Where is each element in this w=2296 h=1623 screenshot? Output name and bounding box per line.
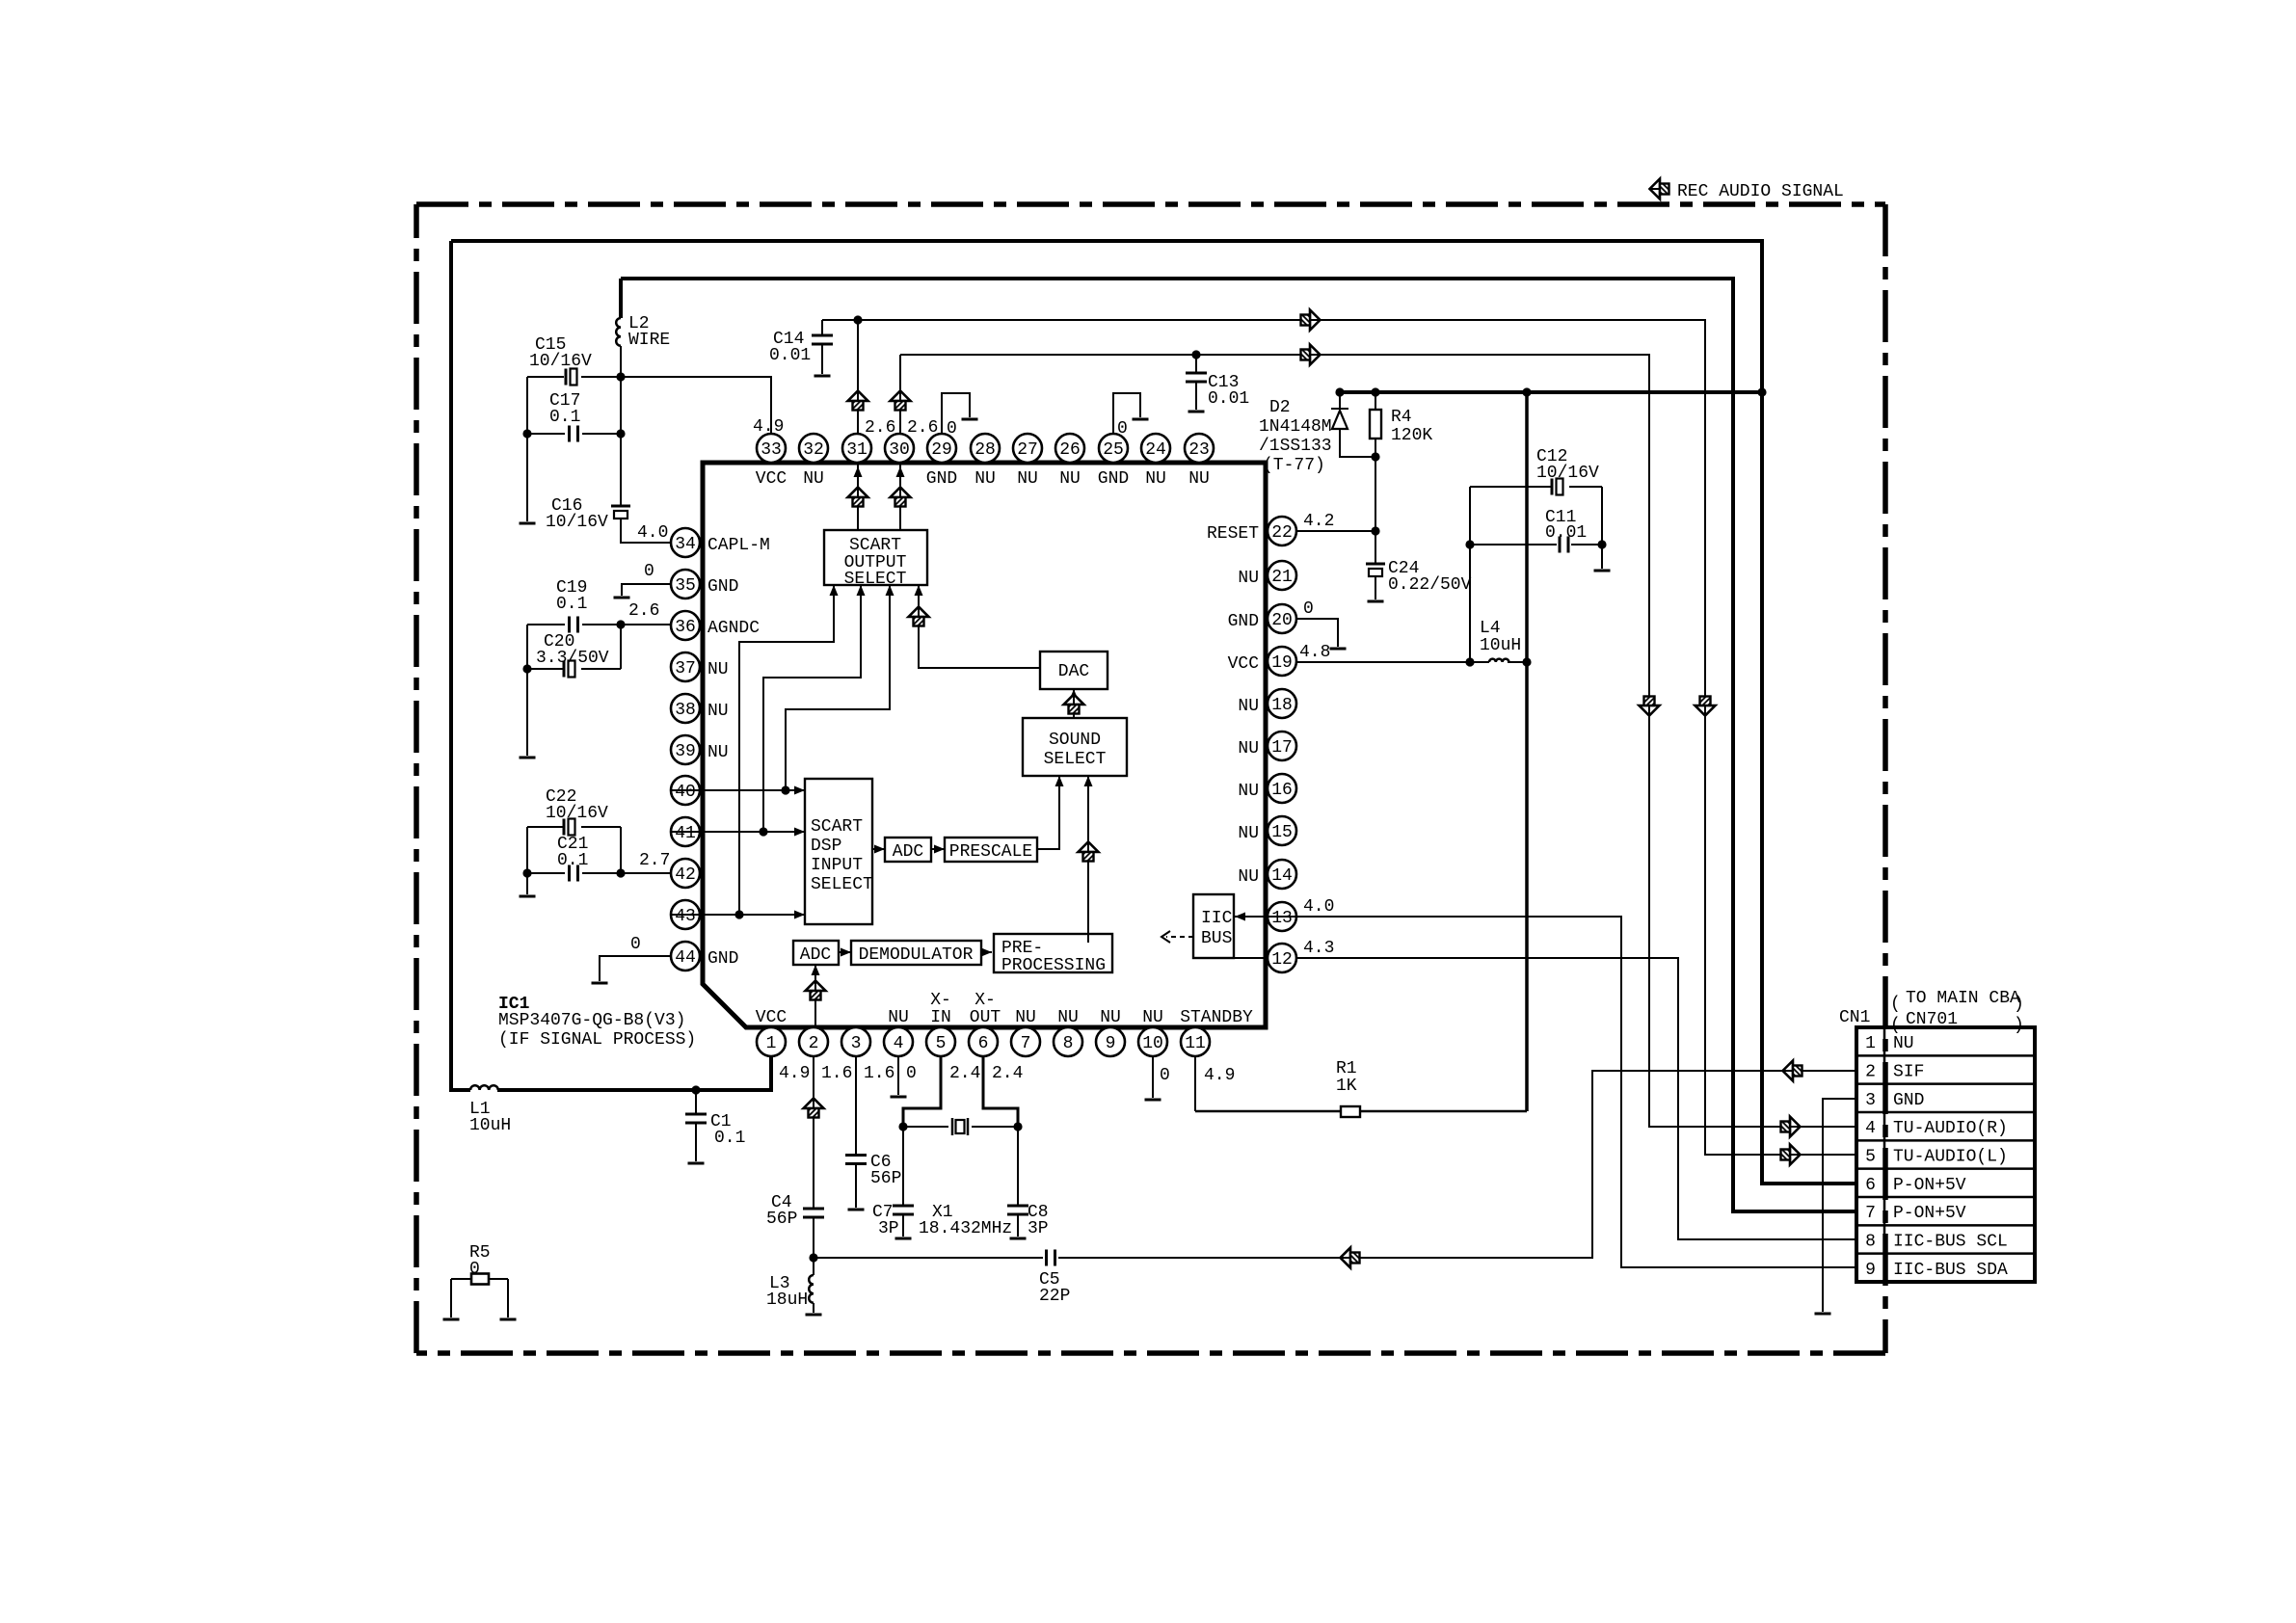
pin 38 (671, 694, 700, 723)
svg-text:10: 10 (1142, 1034, 1163, 1053)
svg-text:P-ON+5V: P-ON+5V (1893, 1204, 1966, 1223)
svg-text:NU: NU (1238, 782, 1259, 801)
svg-text:1N4148M: 1N4148M (1259, 417, 1332, 437)
junction L4 right (1522, 657, 1531, 666)
pin 44 (671, 942, 700, 971)
svg-text:27: 27 (1017, 440, 1038, 460)
svg-text:17: 17 (1271, 738, 1293, 758)
svg-text:ADC: ADC (800, 945, 832, 965)
pin 2 (799, 1027, 828, 1056)
svg-text:NU: NU (1893, 1034, 1914, 1053)
signal arrow pin30 inside (891, 488, 911, 507)
svg-text:): ) (2014, 1016, 2024, 1035)
svg-text:10/16V: 10/16V (546, 804, 608, 823)
svg-text:PROCESSING: PROCESSING (1001, 956, 1106, 975)
svg-text:7: 7 (1865, 1204, 1876, 1223)
pin 6 (969, 1027, 998, 1056)
svg-text:VCC: VCC (1228, 654, 1260, 674)
wire C20 right rail (620, 625, 622, 669)
block SOUND SELECT (1023, 718, 1127, 776)
capacitor C1 0.1 (695, 1090, 697, 1114)
pin 3 (841, 1027, 870, 1056)
svg-text:1: 1 (766, 1034, 777, 1053)
svg-text:DAC: DAC (1058, 662, 1090, 681)
wire AGNDC pin36 net (2.6) (527, 624, 671, 625)
svg-text:NU: NU (1238, 739, 1259, 758)
svg-text:TO MAIN CBA: TO MAIN CBA (1906, 989, 2020, 1008)
capacitor C14 0.01 (821, 320, 823, 335)
svg-text:0: 0 (1160, 1066, 1170, 1085)
pin 36 (671, 611, 700, 640)
pin 4 (884, 1027, 913, 1056)
svg-text:PRESCALE: PRESCALE (949, 842, 1032, 862)
svg-text:2.4: 2.4 (992, 1064, 1023, 1083)
wire IIC BUS to pin13 (1234, 916, 1296, 918)
svg-text:18: 18 (1271, 696, 1293, 715)
svg-text:NU: NU (974, 469, 996, 489)
pin 23 (1185, 434, 1214, 463)
resistor R1 1K (1341, 1106, 1360, 1117)
wire pin2 to ADC2 (814, 965, 816, 1027)
connector CN1 table (1856, 1027, 2035, 1282)
wire pin35 GND stub (622, 584, 671, 596)
svg-text:NU: NU (707, 743, 729, 762)
svg-text:0.1: 0.1 (549, 408, 580, 427)
junction SIF/C5 line (809, 1253, 817, 1262)
wire pin3 to C6 (855, 1056, 857, 1155)
wire pin31 audio line to CN1 pin 5 TU-AUDIO(L) (822, 320, 1856, 1155)
svg-text:DEMODULATOR: DEMODULATOR (859, 945, 974, 965)
svg-text:NU: NU (1017, 469, 1038, 489)
signal arrow into CN1 pin2 SIF (1783, 1061, 1802, 1081)
pin 8 (1054, 1027, 1082, 1056)
svg-text:SELECT: SELECT (811, 875, 873, 894)
wire ADC to PRESCALE (931, 848, 945, 850)
wire pin40 branch to SCART OUTPUT SELECT (786, 585, 890, 790)
block ADC (demodulator path) (793, 941, 839, 965)
pin 19 (1268, 647, 1296, 676)
signal arrow on SIF line (1341, 1248, 1360, 1268)
svg-text:3.3/50V: 3.3/50V (536, 649, 609, 668)
svg-text:2.6: 2.6 (907, 418, 938, 438)
svg-text:GND: GND (707, 949, 738, 969)
resistor R5 0 (451, 1279, 508, 1317)
svg-text:VCC: VCC (756, 1008, 788, 1027)
svg-text:0.1: 0.1 (556, 595, 587, 614)
wire IIC BUS to pin12 (1234, 957, 1268, 959)
diode D2 1N4148M/1SS133 (1331, 392, 1375, 457)
capacitor C13 0.01 (1195, 355, 1197, 373)
junction X1 right (1013, 1122, 1022, 1131)
wire C22 right rail (620, 827, 622, 873)
wire C12/C11 right rail to ground (1601, 487, 1603, 569)
capacitor C24 0.22/50V (1366, 563, 1385, 566)
wire pin30 audio line to CN1 pin 4 TU-AUDIO(R) (900, 355, 1856, 1127)
svg-text:8: 8 (1865, 1233, 1876, 1252)
svg-text:18uH: 18uH (766, 1290, 808, 1310)
svg-text:NU: NU (1238, 569, 1259, 588)
junction rail-D2 (1335, 387, 1344, 396)
wire pin12 to CN1 pin 8 IIC-BUS SCL (4.3) (1296, 958, 1856, 1239)
svg-text:44: 44 (675, 948, 696, 968)
wire pin11 STANDBY to R1 (1194, 1056, 1196, 1111)
pin 30 (885, 434, 914, 463)
pin 26 (1055, 434, 1084, 463)
junction C19/C20 right (616, 620, 625, 628)
signal arrow on DAC wire (909, 607, 929, 626)
inductor L1 10uH (470, 1085, 498, 1090)
pin 5 (926, 1027, 955, 1056)
capacitor C15 10/16V (565, 369, 568, 386)
svg-text:NU: NU (803, 469, 824, 489)
svg-text:0.01: 0.01 (769, 346, 811, 365)
svg-text:OUT: OUT (970, 1008, 1001, 1027)
pin 16 (1268, 774, 1296, 803)
svg-text:AGNDC: AGNDC (707, 619, 760, 638)
svg-text:3: 3 (1865, 1091, 1876, 1110)
svg-text:16: 16 (1271, 781, 1293, 800)
svg-text:10/16V: 10/16V (529, 352, 592, 371)
pin 17 (1268, 732, 1296, 760)
svg-text:VCC: VCC (756, 469, 788, 489)
svg-text:41: 41 (675, 824, 696, 843)
svg-text:P-ON+5V: P-ON+5V (1893, 1176, 1966, 1195)
wire DEMODULATOR to PRE-PROCESSING (981, 951, 992, 953)
wire pin4 stub (897, 1056, 899, 1095)
block DEMODULATOR (851, 941, 981, 965)
wire C12/C11 left rail (1469, 487, 1471, 662)
svg-text:IIC-BUS SCL: IIC-BUS SCL (1893, 1233, 2008, 1252)
svg-text:0: 0 (469, 1260, 480, 1279)
svg-text:32: 32 (803, 440, 824, 460)
junction C17 right (616, 429, 625, 438)
block PRE-PROCESSING (994, 934, 1112, 972)
pin 20 (1268, 604, 1296, 633)
svg-text:SCART: SCART (811, 817, 863, 837)
pin 28 (971, 434, 1000, 463)
wire pin2 riser to C4 (813, 1056, 814, 1209)
svg-text:1K: 1K (1336, 1077, 1357, 1096)
wire C19/C20 ground rail (526, 625, 528, 756)
svg-text:10uH: 10uH (1480, 636, 1521, 655)
svg-text:SELECT: SELECT (844, 570, 907, 589)
svg-text:SELECT: SELECT (1044, 750, 1107, 769)
svg-text:GND: GND (707, 577, 738, 597)
svg-text:NU: NU (707, 660, 729, 679)
pin 42 (671, 859, 700, 888)
signal arrow down TU-AUDIO(R) (1640, 697, 1660, 716)
svg-text:56P: 56P (870, 1169, 901, 1188)
svg-text:4: 4 (894, 1034, 904, 1053)
svg-text:10/16V: 10/16V (1536, 464, 1599, 483)
capacitor C21 0.1 (570, 865, 578, 882)
wire ADC2 to DEMODULATOR (839, 951, 851, 953)
svg-text:GND: GND (1228, 612, 1259, 631)
svg-text:25: 25 (1103, 440, 1124, 460)
wire pin41 branch to SCART OUTPUT SELECT (763, 585, 861, 832)
svg-text:CAPL-M: CAPL-M (707, 536, 770, 555)
svg-text:37: 37 (675, 659, 696, 678)
svg-text:20: 20 (1271, 611, 1293, 630)
svg-text:0.1: 0.1 (714, 1129, 745, 1148)
svg-text:2.6: 2.6 (865, 418, 895, 438)
REC AUDIO SIGNAL flow arrow (1650, 179, 1669, 200)
junction C20 left (522, 664, 531, 673)
resistor R4 120K (1375, 392, 1376, 563)
wire pin29 GND stub (942, 393, 970, 434)
junction L2/C15 (616, 372, 625, 381)
pin 39 (671, 735, 700, 764)
svg-text:21: 21 (1271, 568, 1293, 587)
wire pin22 RESET (4.2) (1296, 530, 1375, 532)
pin 25 (1099, 434, 1128, 463)
pin 40 (671, 776, 700, 805)
junction reset wire (1371, 526, 1379, 535)
signal arrow on TU-AUDIO(L) line (1301, 310, 1321, 331)
svg-text:31: 31 (846, 440, 868, 460)
svg-text:GND: GND (1893, 1091, 1924, 1110)
wire second P-ON route to CN1 pin 7 (from L2) (621, 279, 1856, 1211)
svg-text:IN: IN (930, 1008, 951, 1027)
block SCART OUTPUT SELECT (824, 530, 927, 585)
wire C22/C21 ground rail (526, 827, 528, 894)
pin 34 (671, 528, 700, 557)
svg-text:): ) (2014, 995, 2024, 1014)
svg-text:NU: NU (1100, 1008, 1121, 1027)
svg-text:IIC-BUS SDA: IIC-BUS SDA (1893, 1261, 2008, 1280)
svg-text:NU: NU (707, 702, 729, 721)
wire pin43 to SCART DSP INPUT SELECT (671, 914, 805, 916)
capacitor C5 22P (1047, 1250, 1055, 1266)
svg-text:28: 28 (974, 440, 996, 460)
pin 32 (799, 434, 828, 463)
capacitor C16 10/16V (611, 505, 630, 508)
wire pin19 VCC to L4 (1296, 661, 1527, 663)
capacitor C12 10/16V (1470, 486, 1602, 488)
svg-text:3P: 3P (878, 1219, 899, 1238)
svg-text:9: 9 (1865, 1261, 1876, 1280)
signal arrow on PRE-PROCESSING wire (1079, 842, 1099, 862)
svg-text:RESET: RESET (1207, 524, 1259, 544)
block PRESCALE (945, 838, 1037, 862)
junction C17 left (522, 429, 531, 438)
pin 43 (671, 900, 700, 929)
svg-text:NU: NU (1238, 824, 1259, 843)
wire pin42 net (2.7) (527, 872, 671, 874)
wire P-ON+5V inner border (top, right drop to CN1 pin 6) (451, 241, 1856, 1184)
junction C21 right (616, 868, 625, 877)
signal arrow down TU-AUDIO(L) (1695, 697, 1716, 716)
svg-text:(IF SIGNAL PROCESS): (IF SIGNAL PROCESS) (498, 1030, 696, 1050)
svg-text:19: 19 (1271, 653, 1293, 673)
pin 29 (927, 434, 956, 463)
svg-text:26: 26 (1059, 440, 1081, 460)
signal arrow into CN1 pin4 (1781, 1117, 1801, 1137)
capacitor C11 0.01 (1470, 544, 1602, 545)
svg-text:15: 15 (1271, 823, 1293, 842)
svg-text:36: 36 (675, 618, 696, 637)
pin 10 (1138, 1027, 1167, 1056)
junction rail-border (1757, 387, 1766, 396)
svg-text:GND: GND (1098, 469, 1129, 489)
svg-text:1: 1 (1865, 1034, 1876, 1053)
pin 31 (842, 434, 871, 463)
wire pin13 to CN1 pin 9 IIC-BUS SDA (4.0) (1296, 917, 1856, 1267)
pin 12 (1268, 944, 1296, 972)
signal arrow DAC input (1064, 695, 1084, 714)
svg-text:5: 5 (1865, 1148, 1876, 1167)
svg-text:2.7: 2.7 (639, 851, 670, 870)
svg-text:9: 9 (1106, 1034, 1116, 1053)
svg-text:WIRE: WIRE (628, 331, 670, 350)
svg-text:5: 5 (936, 1034, 947, 1053)
svg-text:NU: NU (1238, 867, 1259, 887)
svg-text:2.4: 2.4 (949, 1064, 980, 1083)
svg-text:12: 12 (1271, 950, 1293, 970)
svg-text:(: ( (1890, 1016, 1901, 1035)
svg-text:R4: R4 (1391, 408, 1412, 427)
svg-text:14: 14 (1271, 866, 1293, 886)
capacitor C19 0.1 (570, 617, 578, 633)
block IIC BUS (1193, 894, 1234, 958)
svg-text:2: 2 (1865, 1063, 1876, 1082)
wire SOUND SELECT to DAC (1073, 689, 1075, 718)
capacitor C4 56P (803, 1209, 824, 1217)
wire C15/C17 ground rail (526, 377, 528, 521)
pin 24 (1141, 434, 1170, 463)
junction pin31 riser (853, 315, 862, 324)
svg-text:1.6: 1.6 (864, 1064, 894, 1083)
svg-text:30: 30 (889, 440, 910, 460)
junction X1 left (898, 1122, 907, 1131)
capacitor C6 56P (845, 1156, 867, 1164)
svg-text:2.6: 2.6 (628, 601, 659, 621)
svg-text:0.1: 0.1 (557, 851, 588, 870)
svg-text:35: 35 (675, 576, 696, 596)
svg-text:39: 39 (675, 742, 696, 761)
pin 7 (1011, 1027, 1040, 1056)
svg-text:42: 42 (675, 865, 696, 885)
wire P-ON+5V inner border (left side and bottom to pin 1) (451, 241, 771, 1090)
pin 22 (1268, 517, 1296, 545)
block DAC (1040, 652, 1108, 689)
svg-text:4.0: 4.0 (637, 523, 668, 543)
wire pin40 to SCART DSP INPUT SELECT (671, 789, 805, 791)
svg-text:29: 29 (931, 440, 952, 460)
svg-text:REC AUDIO SIGNAL: REC AUDIO SIGNAL (1677, 182, 1844, 201)
svg-text:24: 24 (1145, 440, 1166, 460)
pin 41 (671, 817, 700, 846)
junction C21 left (522, 868, 531, 877)
svg-text:2: 2 (809, 1034, 819, 1053)
wire pin44 GND stub (600, 956, 671, 981)
pin 13 (1268, 902, 1296, 931)
block SCART DSP INPUT SELECT (805, 779, 872, 924)
wire pin43 branch to SCART OUTPUT SELECT (739, 585, 834, 915)
svg-text:13: 13 (1271, 909, 1293, 928)
inductor L3 18uH (813, 1258, 814, 1275)
pin 27 (1013, 434, 1042, 463)
svg-text:4: 4 (1865, 1119, 1876, 1138)
svg-text:0: 0 (630, 935, 641, 954)
svg-text:NU: NU (1145, 469, 1166, 489)
svg-text:3: 3 (851, 1034, 862, 1053)
wire CN1 pin 3 GND stub (1823, 1099, 1856, 1312)
svg-text:4.9: 4.9 (753, 417, 784, 437)
svg-text:4.3: 4.3 (1303, 939, 1334, 958)
capacitor C7 3P (902, 1127, 904, 1206)
svg-text:34: 34 (675, 535, 696, 554)
svg-text:4.2: 4.2 (1303, 512, 1334, 531)
wire crystal X1 link (903, 1126, 1018, 1128)
svg-text:0.22/50V: 0.22/50V (1388, 575, 1472, 595)
svg-text:X-: X- (974, 991, 996, 1010)
svg-text:INPUT: INPUT (811, 856, 863, 875)
signal arrow pin30 outside (891, 391, 911, 411)
svg-text:4.8: 4.8 (1299, 643, 1330, 662)
wire pin31 riser inside IC (857, 463, 859, 530)
signal arrow pin31 outside (848, 391, 868, 411)
svg-text:NU: NU (1142, 1008, 1163, 1027)
wire pin25 GND stub (1113, 393, 1140, 434)
junction C1 (691, 1085, 700, 1094)
svg-text:CN701: CN701 (1906, 1010, 1958, 1029)
svg-text:22: 22 (1271, 523, 1293, 543)
capacitor C8 3P (1017, 1127, 1019, 1206)
wire pin5 X-IN drop (903, 1056, 941, 1127)
svg-text:MSP3407G-QG-B8(V3): MSP3407G-QG-B8(V3) (498, 1011, 685, 1030)
dashed arrow out of IIC BUS (1166, 936, 1193, 938)
svg-text:NU: NU (1057, 1008, 1079, 1027)
svg-text:NU: NU (1059, 469, 1081, 489)
svg-text:33: 33 (761, 440, 782, 460)
pin 18 (1268, 689, 1296, 718)
junction L4 left (1465, 657, 1474, 666)
svg-text:NU: NU (1015, 1008, 1036, 1027)
wire SCART OUTPUT SELECT to DAC (919, 585, 1040, 668)
svg-text:0: 0 (947, 419, 957, 439)
svg-text:(T-77): (T-77) (1263, 456, 1325, 475)
svg-text:SOUND: SOUND (1049, 731, 1101, 750)
pin 1 (757, 1027, 786, 1056)
wire PRESCALE to SOUND SELECT (1037, 776, 1059, 849)
svg-text:SIF: SIF (1893, 1063, 1924, 1082)
wire VCC vertical x1584 (1525, 392, 1529, 1111)
svg-text:0: 0 (906, 1064, 917, 1083)
wire L2 riser top (619, 279, 623, 318)
wire pin20 GND stub (1296, 619, 1338, 647)
signal arrow pin31 inside (848, 488, 868, 507)
pin 14 (1268, 860, 1296, 889)
svg-text:0: 0 (1303, 599, 1314, 619)
outer dash-dot border (REC AUDIO SIGNAL boundary) (416, 201, 1885, 207)
wire VCC pin33 net (4.9) (527, 377, 771, 434)
svg-text:22P: 22P (1039, 1287, 1070, 1306)
capacitor C17 0.1 (527, 433, 621, 435)
svg-text:38: 38 (675, 701, 696, 720)
svg-text:6: 6 (1865, 1176, 1876, 1195)
pin 35 (671, 570, 700, 599)
svg-text:CN1: CN1 (1839, 1008, 1870, 1027)
svg-text:43: 43 (675, 907, 696, 926)
svg-text:23: 23 (1188, 440, 1210, 460)
junction C11 left (1465, 540, 1474, 548)
crystal X1 18.432MHz (952, 1118, 968, 1135)
svg-text:TU-AUDIO(L): TU-AUDIO(L) (1893, 1148, 2008, 1167)
svg-text:10/16V: 10/16V (546, 513, 608, 532)
svg-text:D2: D2 (1269, 398, 1291, 417)
svg-text:DSP: DSP (811, 837, 841, 856)
